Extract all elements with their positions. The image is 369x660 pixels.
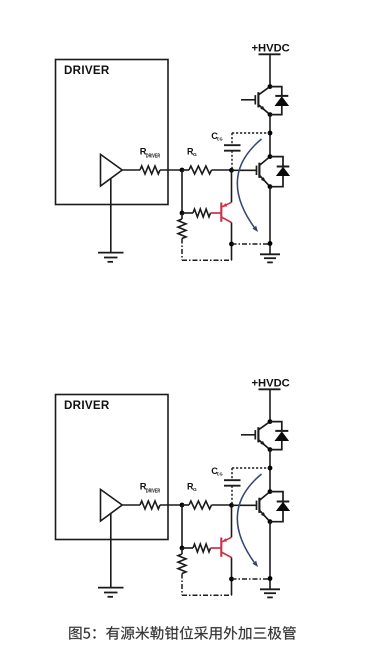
wire: Q collector down to node D (231, 558, 233, 580)
resistor RGE (gate-emitter pulldown) (178, 554, 186, 574)
transistor Q1: emitter lead (arrow into bar = PNP) (221, 202, 231, 207)
wire: buffer output to RDRIVER (122, 169, 140, 171)
top schematic: active miller clamp circuit 1 (56, 43, 291, 263)
svg-text:G: G (193, 487, 197, 493)
driver IC box U1 (56, 60, 169, 205)
IGBT T1L (lower): collector node (268, 154, 273, 159)
wire: bottom rail up to collector node D (231, 579, 233, 595)
IGBT T2H (upper): body bar (257, 427, 259, 442)
wire (dash-dot): pulldown resistor to bottom rail (181, 239, 183, 261)
transistor Q2: collector lead (221, 552, 231, 558)
wire: gate node B down to Q emitter (231, 170, 233, 202)
transistor Q1: collector lead (221, 217, 231, 223)
IGBT T1L (lower): emitter lead with arrow (259, 175, 270, 187)
IGBT T1L (lower): body bar (258, 163, 260, 178)
resistor RB (base resistor of clamp transistor) (193, 209, 211, 217)
transistor Q1 (PNP miller clamp, red) base lead (211, 212, 222, 214)
node B (gate node) (229, 503, 234, 508)
IGBT T2L (lower): body bar (258, 498, 260, 513)
IGBT T1L (lower): gate lead (232, 169, 257, 171)
IGBT T1H (upper): body bar (257, 92, 259, 107)
IGBT T1L (lower): gate bar (256, 166, 258, 175)
node D (clamp return node) (229, 242, 234, 247)
wire: RDRIVER to node A (160, 169, 182, 171)
wire: node C to base resistor (182, 547, 193, 549)
IGBT T2H (upper): emitter lead with arrow (258, 440, 270, 450)
svg-text:+HVDC: +HVDC (252, 378, 290, 390)
wire: Q collector down to node D (231, 223, 233, 245)
wire: node A to RG (182, 504, 189, 506)
transistor Q2: base bar (220, 538, 222, 557)
IGBT T2L (lower): freewheel diode (filled, pointing up) (276, 502, 290, 511)
node B (gate node) (229, 168, 234, 173)
wire: +HVDC to upper IGBT collector (269, 389, 271, 421)
wire: phase leg middle rail (269, 115, 271, 157)
capacitor CCG (miller capacitance) plate 1 (224, 144, 241, 146)
svg-text:G: G (193, 152, 197, 158)
svg-text:DRIVER: DRIVER (146, 488, 160, 494)
IGBT T1L (lower): freewheel diode wiring (270, 157, 283, 187)
wire (dotted): miller node to CCG (232, 132, 270, 134)
wire: +HVDC to upper IGBT collector (269, 54, 271, 86)
capacitor CCG (miller capacitance) plate 1 (224, 479, 241, 481)
wire: node A down to node C (181, 505, 183, 548)
ground symbol (driver common) (98, 587, 124, 589)
IGBT T1L (lower): freewheel diode (filled, pointing up) (276, 167, 290, 176)
svg-text:DRIVER: DRIVER (64, 399, 110, 412)
wire (dotted): miller node to CCG (232, 467, 270, 469)
node E (power ground node) (268, 241, 273, 246)
bottom schematic: active miller clamp circuit 2 (identical, offset) (56, 378, 291, 598)
IGBT T2L (lower): gate bar (256, 501, 258, 510)
IGBT T1H (upper): freewheel diode wiring (270, 87, 282, 115)
wire: RDRIVER to node A (160, 504, 182, 506)
IGBT T2H (upper): freewheel diode wiring (270, 422, 282, 450)
node A (driver output node) (180, 503, 185, 508)
ground symbol (driver common) (98, 252, 124, 254)
capacitor CCG plate 2 (224, 485, 241, 487)
wire (dotted): CCG bottom lead to gate node (231, 151, 233, 170)
driver output buffer (triangle) U2A (101, 489, 123, 521)
wire (dash-dot): node D to power ground (232, 578, 271, 580)
IGBT T2L (lower): collector node (268, 489, 273, 494)
IGBT T1L (lower): collector lead (259, 157, 270, 166)
wire: driver common to ground (110, 514, 112, 588)
svg-text:CG: CG (217, 472, 223, 478)
wire (dash-dot): pulldown resistor to bottom rail (181, 574, 183, 596)
IGBT T1H (upper): gate lead (241, 99, 255, 101)
node C (base branch node) (180, 211, 185, 216)
miller current path (blue arrow) (237, 139, 261, 230)
+HVDC terminal bar (259, 53, 281, 55)
IGBT T2L (lower): collector lead (259, 492, 270, 501)
wire: lower IGBT emitter to ground (269, 522, 271, 590)
wire (dash-dot): bottom return rail (182, 259, 232, 261)
wire: gate node B down to Q emitter (231, 505, 233, 537)
wire: RG to gate node B (212, 504, 232, 506)
IGBT T2H (upper): emitter node (268, 447, 273, 452)
node D (clamp return node) (229, 577, 234, 582)
resistor RDRIVER (gate drive resistor) (140, 501, 160, 509)
ground symbol (power ground) (260, 253, 280, 255)
wire: phase leg middle rail (269, 450, 271, 492)
svg-text:DRIVER: DRIVER (146, 153, 160, 159)
+HVDC terminal bar (259, 388, 281, 390)
node M (miller feedback node) (268, 131, 273, 136)
wire (dotted): CCG top lead (231, 468, 233, 480)
wire: driver common to ground (110, 179, 112, 253)
wire: bottom rail up to collector node D (231, 244, 233, 260)
IGBT T1H (upper): freewheel diode cathode bar (275, 95, 288, 97)
IGBT T1H (upper): freewheel diode (filled, pointing up) (275, 96, 290, 106)
resistor RB (base resistor of clamp transistor) (193, 544, 211, 552)
resistor RDRIVER (gate drive resistor) (140, 166, 160, 174)
IGBT T2L (lower): emitter lead with arrow (259, 510, 270, 522)
capacitor CCG plate 2 (224, 150, 241, 152)
IGBT T1H (upper): gate bar (254, 95, 256, 104)
IGBT T2H (upper): gate bar (254, 430, 256, 439)
miller current path (blue arrow) (237, 474, 261, 565)
wire: pulldown resistor top lead (181, 213, 183, 219)
caption: 图5：有源米勒钳位采用外加三极管 (69, 626, 296, 640)
node M (miller feedback node) (268, 466, 273, 471)
driver IC box U2 (56, 395, 169, 540)
IGBT T2H (upper): collector node (268, 419, 273, 424)
IGBT T1H (upper): emitter node (268, 112, 273, 117)
wire: lower IGBT emitter to ground (269, 187, 271, 255)
wire: buffer output to RDRIVER (122, 504, 140, 506)
wire: node A to RG (182, 169, 189, 171)
IGBT T2L (lower): freewheel diode cathode bar (277, 501, 290, 503)
IGBT T2H (upper): freewheel diode cathode bar (275, 430, 288, 432)
svg-text:DRIVER: DRIVER (64, 64, 110, 77)
resistor RGE (gate-emitter pulldown) (178, 219, 186, 239)
IGBT T2H (upper): gate lead (241, 434, 255, 436)
node C (base branch node) (180, 546, 185, 551)
IGBT T1H (upper): collector lead (258, 87, 270, 95)
resistor RG (gate resistor) (189, 166, 212, 174)
wire (dash-dot): node D to power ground (232, 243, 271, 245)
driver output buffer (triangle) U1A (101, 154, 123, 186)
node A (driver output node) (180, 168, 185, 173)
IGBT T2L (lower): freewheel diode wiring (270, 492, 283, 522)
wire: pulldown resistor top lead (181, 548, 183, 554)
wire (dash-dot): bottom return rail (182, 594, 232, 596)
IGBT T2L (lower): emitter node (268, 519, 273, 524)
ground symbol (power ground) (260, 588, 280, 590)
transistor Q2: emitter lead (arrow into bar = PNP) (221, 537, 231, 542)
IGBT T2H (upper): collector lead (258, 422, 270, 430)
resistor RG (gate resistor) (189, 501, 212, 509)
wire: RG to gate node B (212, 169, 232, 171)
transistor Q2 (PNP miller clamp, red) base lead (211, 547, 222, 549)
node E (power ground node) (268, 576, 273, 581)
wire (dotted): CCG bottom lead to gate node (231, 486, 233, 505)
IGBT T1H (upper): emitter lead with arrow (258, 105, 270, 115)
IGBT T1L (lower): emitter node (268, 184, 273, 189)
IGBT T2H (upper): freewheel diode (filled, pointing up) (275, 431, 290, 441)
wire: node C to base resistor (182, 212, 193, 214)
transistor Q1: base bar (220, 203, 222, 222)
svg-text:+HVDC: +HVDC (252, 43, 290, 55)
svg-text:CG: CG (217, 137, 223, 143)
wire: node A down to node C (181, 170, 183, 213)
IGBT T2L (lower): gate lead (232, 504, 257, 506)
IGBT T1L (lower): freewheel diode cathode bar (277, 166, 290, 168)
IGBT T1H (upper): collector node (268, 84, 273, 89)
wire (dotted): CCG top lead (231, 133, 233, 145)
